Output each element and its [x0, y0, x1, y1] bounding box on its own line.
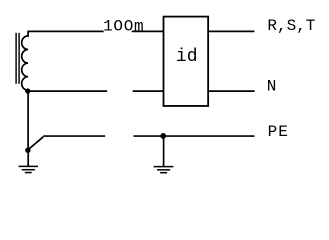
ground symbol mid (PE) — [154, 167, 174, 173]
junction dot B (ground tap) — [25, 148, 30, 153]
wire R,S,T row mid (into box) — [132, 30, 164, 32]
wire PE row right — [134, 135, 255, 137]
ground stem left — [27, 150, 29, 166]
wire neutral drop — [27, 91, 29, 150]
transformer core — [16, 33, 19, 84]
wire N row mid (into box) — [133, 90, 164, 92]
svg-text:N: N — [267, 78, 277, 96]
junction dot A (winding bottom) — [25, 88, 30, 93]
wire N output — [208, 90, 254, 92]
switch blade S1 — [28, 137, 43, 150]
wire R,S,T row left (from winding) — [27, 30, 103, 32]
inductor winding L1 — [22, 31, 28, 91]
wire R,S,T output — [208, 30, 254, 32]
svg-text:id: id — [176, 47, 198, 67]
monitor box U1 — [164, 17, 209, 106]
wire N row left (from junction) — [28, 90, 107, 92]
svg-text:1OOm: 1OOm — [103, 17, 144, 35]
wire PE row left (from switch) — [43, 135, 105, 137]
svg-text:PE: PE — [268, 123, 289, 141]
junction dot C (PE ground) — [160, 133, 166, 139]
ground symbol left — [19, 166, 39, 172]
ground stem mid — [163, 136, 165, 167]
svg-text:R,S,T: R,S,T — [267, 17, 315, 35]
